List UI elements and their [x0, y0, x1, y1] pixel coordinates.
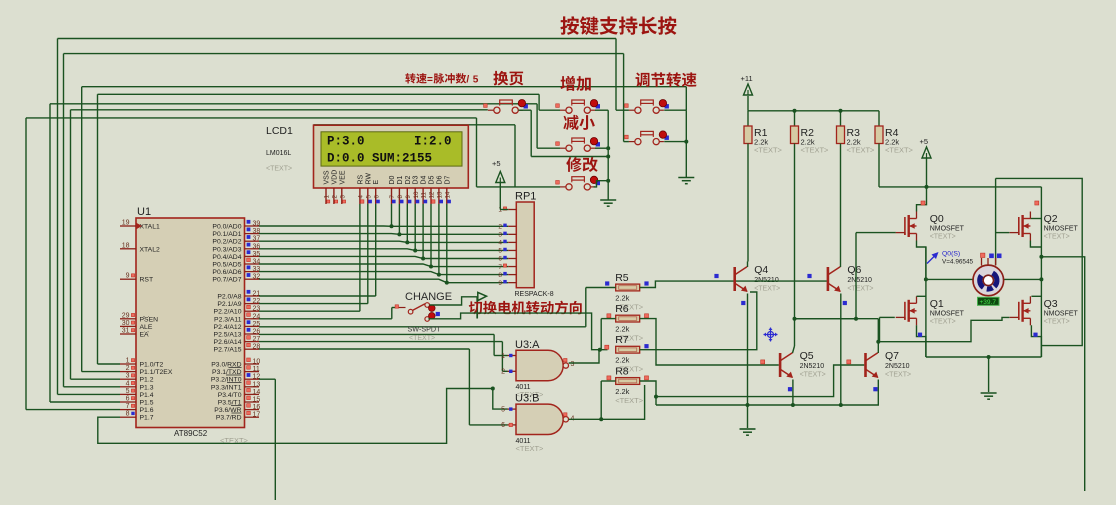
wire P1 bundle h y=103.8 [50, 103, 537, 105]
U1 pin 8 P1.7 [120, 416, 136, 418]
wire Q5 collector node to Q0 gate [795, 318, 857, 320]
svg-text:+5: +5 [920, 137, 929, 146]
wire motor top pin to Q2 gate and top loop [995, 178, 997, 265]
svg-text:D6: D6 [436, 175, 443, 184]
svg-text:31: 31 [122, 328, 130, 335]
svg-text:<TEXT>: <TEXT> [930, 234, 956, 241]
NAND gate U3:B 4011 [516, 404, 563, 434]
svg-text:P2.7/A15: P2.7/A15 [214, 347, 242, 354]
wire 调节 A out [664, 109, 686, 111]
svg-text:<TEXT>: <TEXT> [847, 146, 876, 155]
svg-text:19: 19 [122, 220, 130, 227]
svg-text:XTAL2: XTAL2 [140, 246, 160, 253]
svg-text:U3:B: U3:B [515, 393, 539, 405]
wire to button 调节转速 A [615, 39, 617, 111]
MOSFET Q0 NMOSFET [896, 212, 917, 241]
wire [64, 386, 121, 388]
svg-text:RP1: RP1 [515, 191, 536, 203]
RP1 pin 4 [508, 241, 516, 243]
push button 换页 [488, 100, 528, 114]
resistor R4 2.2k [875, 126, 883, 144]
wire ground stem [747, 405, 749, 428]
U1 pin 15 P3.5/T1 [245, 401, 260, 403]
transistor Q4 2N5210 [735, 267, 748, 292]
U1 pin 16 P3.6/WR [245, 409, 260, 411]
svg-text:P1.2: P1.2 [140, 377, 154, 384]
wire R4 down to +5 rail [878, 144, 880, 187]
wire 换页 out to column [519, 109, 532, 111]
wire [58, 393, 121, 395]
svg-text:7: 7 [498, 264, 502, 271]
U1 pin 7 P1.6 [120, 409, 136, 411]
svg-text:5: 5 [365, 195, 372, 199]
svg-text:P2.3/A11: P2.3/A11 [214, 316, 242, 323]
wire bridge ground rail [926, 356, 1042, 358]
wire P2.3 to switch [259, 318, 392, 320]
wire P1 bundle v x=50 [49, 104, 51, 402]
wire R6 right to Q5 base [640, 319, 779, 365]
U1 pin 1 P1.0/T2 [120, 363, 136, 365]
wire Q6 base from Q4 side [736, 280, 827, 282]
svg-text:P1.5: P1.5 [140, 400, 154, 407]
U1 pin 25 P2.4/A12 [245, 325, 260, 327]
U1 pin 6 P1.5 [120, 401, 136, 403]
wire P1 bundle h y=86.7 [82, 86, 687, 88]
wire Q2 source to right column [1030, 241, 1041, 248]
wire switch top contact [430, 297, 478, 305]
wire P1 bundle v x=81.7 [81, 87, 83, 372]
svg-text:P0.5/AD5: P0.5/AD5 [212, 262, 241, 269]
wire R1 to Q4 collector [747, 144, 749, 262]
svg-text:NMOSFET: NMOSFET [1044, 226, 1079, 233]
label 切换电机转动方向 [469, 301, 582, 315]
svg-text:CHANGE: CHANGE [405, 291, 452, 303]
RP1 pin 5 [508, 249, 516, 251]
motor rpm display +39.7 [978, 297, 1000, 306]
svg-text:P0.4/AD4: P0.4/AD4 [212, 254, 241, 261]
wire P1 bundle h y=94.3 [98, 93, 540, 95]
svg-text:<TEXT>: <TEXT> [754, 286, 780, 293]
wire P3.2 to bottom [259, 378, 275, 380]
motor pin squares [981, 253, 985, 257]
svg-text:P0.1/AD1: P0.1/AD1 [212, 231, 241, 238]
wire +11 rail [747, 96, 749, 111]
wire P0.3 to RP1 pin 5 [259, 249, 508, 251]
svg-text:<TEXT>: <TEXT> [754, 146, 783, 155]
svg-text:1: 1 [126, 358, 130, 365]
svg-text:3: 3 [339, 195, 346, 199]
svg-text:R6: R6 [615, 303, 629, 315]
wire Q7 emitter [877, 380, 879, 406]
svg-text:2: 2 [501, 369, 505, 376]
wire Q5 emitter [792, 380, 794, 406]
svg-text:3: 3 [126, 373, 130, 380]
svg-text:P2.2/A10: P2.2/A10 [214, 309, 242, 316]
svg-text:EA: EA [140, 332, 150, 339]
push button 调节转速 B [629, 131, 669, 145]
wire along LCD top to RP1 column [314, 124, 516, 126]
svg-text:15: 15 [253, 397, 261, 404]
wire P0.2 to RP1 pin 4 [259, 241, 508, 242]
svg-text:8: 8 [498, 272, 502, 279]
U1 pin 13 P3.3/INT1 [245, 386, 260, 388]
svg-text:P2.5/A13: P2.5/A13 [214, 332, 242, 339]
wire 修改 out [594, 181, 609, 187]
MOSFET Q1 NMOSFET [896, 296, 917, 325]
svg-text:2.2k: 2.2k [615, 294, 629, 303]
push button 修改 [560, 176, 600, 190]
transistor Q6 2N5210 [828, 267, 841, 292]
wire far right vertical [1041, 257, 1084, 491]
svg-text:12: 12 [429, 191, 436, 198]
U1 pin 28 P2.7/A15 [245, 348, 260, 350]
wire LCD E to P2.0 [375, 204, 377, 296]
svg-text:13: 13 [437, 191, 444, 198]
push button 减小 [560, 138, 600, 152]
ground below motor bridge [981, 393, 997, 399]
svg-text:P0.7/AD7: P0.7/AD7 [212, 277, 241, 284]
push button 增加 [560, 100, 600, 114]
U1 pin 3 P1.2 [120, 378, 136, 380]
wire to Q2 drain [1030, 218, 1041, 220]
LCD LCD1 LM016L [314, 125, 469, 188]
svg-text:R7: R7 [615, 334, 629, 346]
svg-text:R8: R8 [615, 366, 629, 378]
svg-text:P1.6: P1.6 [140, 407, 154, 414]
MOSFET Q2 NMOSFET [1010, 212, 1031, 241]
svg-text:P0.0/AD0: P0.0/AD0 [212, 224, 241, 231]
svg-text:2N5210: 2N5210 [800, 363, 825, 370]
resistor R6 2.2k [616, 315, 640, 322]
wire R3 to Q6 collector [840, 144, 842, 262]
wire to button 增加 [538, 94, 540, 110]
wire Q7 collector node across [877, 319, 879, 342]
svg-text:D:0.0 SUM:2155: D:0.0 SUM:2155 [327, 152, 432, 166]
wire LCD D7 column [446, 204, 448, 283]
svg-text:5: 5 [126, 388, 130, 395]
svg-text:=: = [427, 75, 433, 86]
svg-text:<TEXT>: <TEXT> [885, 146, 914, 155]
svg-text:RS: RS [357, 174, 364, 184]
switch CHANGE SW-SPDT [395, 303, 430, 322]
wire Q5 collector [793, 346, 795, 353]
svg-text:13: 13 [253, 381, 261, 388]
svg-text:2N5210: 2N5210 [847, 277, 872, 284]
svg-text:D4: D4 [421, 175, 428, 184]
wire Q4 emitter down to rail [747, 294, 749, 406]
svg-text:<TEXT>: <TEXT> [1044, 318, 1070, 325]
svg-text:6: 6 [126, 396, 130, 403]
wire P1 bundle h y=117.9 [26, 117, 477, 119]
U1 pin 27 P2.6/A14 [245, 341, 260, 343]
svg-text:14: 14 [253, 389, 261, 396]
svg-text:3: 3 [498, 232, 502, 239]
wire P1 bundle v x=97.5 [97, 94, 99, 364]
wire ground stem motor [988, 357, 990, 392]
wire LCD D0 column [391, 204, 393, 226]
wire P1 bundle h y=53.6 [64, 53, 624, 55]
wire P2.4 to R5 [259, 326, 586, 328]
wire LCD D4 column [422, 204, 424, 259]
svg-text:17: 17 [253, 412, 261, 419]
svg-text:XTAL1: XTAL1 [140, 224, 160, 231]
svg-text:P0.2/AD2: P0.2/AD2 [212, 239, 241, 246]
ground below 调节转速 buttons [678, 178, 694, 184]
wire R7 right to Q4 emitter node [640, 292, 757, 350]
wire to ground column right of 调节转速 [685, 87, 687, 111]
RP1 pin 6 [508, 258, 516, 260]
svg-text:Q6: Q6 [847, 264, 861, 276]
svg-text:8: 8 [126, 411, 130, 418]
wire U3:A output to R6/R7 node [569, 350, 599, 363]
U1 pin 29 PSEN [120, 318, 136, 320]
svg-text:<TEXT>: <TEXT> [801, 146, 830, 155]
U1 pin 5 P1.4 [120, 393, 136, 395]
svg-text:U3:A: U3:A [515, 339, 540, 351]
NAND gate U3:A 4011 [516, 350, 563, 380]
U1 pin 10 P3.0/RXD [245, 363, 260, 365]
U1 pin 12 P3.2/INT0 [245, 378, 260, 380]
wire P1 bundle v x=63.5 [63, 54, 65, 387]
U1 pin 26 P2.5/A13 [245, 333, 260, 335]
svg-text:2: 2 [332, 195, 339, 199]
svg-text:Q1: Q1 [930, 298, 944, 310]
wire P2.6 to U3:A pin2 [259, 341, 502, 343]
svg-text:9: 9 [126, 273, 130, 280]
wire Q7 collector to node [877, 342, 879, 353]
green direction arrow [477, 292, 486, 318]
svg-text:+39.7: +39.7 [980, 299, 997, 306]
svg-text:RST: RST [140, 277, 154, 284]
svg-text:1: 1 [324, 195, 331, 199]
power +5 near bridge [920, 137, 932, 158]
svg-text:10: 10 [413, 191, 420, 198]
svg-text:4: 4 [126, 380, 130, 387]
svg-text:+5: +5 [492, 159, 501, 168]
U1 pin 14 P3.4/T0 [245, 393, 260, 395]
wire P1 bundle h y=38.5 [58, 38, 617, 40]
wire Q1 source to ground rail [917, 325, 926, 357]
wire to button 减小 [536, 104, 538, 148]
wire P1 bundle v x=26 [25, 118, 27, 410]
svg-text:29: 29 [122, 312, 130, 319]
svg-text:<TEXT>: <TEXT> [885, 372, 911, 379]
svg-text:<TEXT>: <TEXT> [800, 372, 826, 379]
wire LCD RW to P2.1 [367, 204, 369, 304]
svg-text:+11: +11 [741, 74, 753, 83]
svg-text:5: 5 [473, 75, 479, 86]
svg-text:D3: D3 [413, 175, 420, 184]
wire R8 right to Q7 base [640, 381, 656, 405]
U1 pin 38 P0.1/AD1 [245, 233, 260, 235]
wire node to Q3 gate staircase [878, 317, 1009, 341]
title text 按键支持长按 [560, 16, 676, 35]
svg-text:7: 7 [389, 195, 396, 199]
U1 pin 19 XTAL1 [120, 225, 136, 227]
wire to button 调节转速 B [623, 54, 625, 142]
wire Q3 source to ground rail [1031, 325, 1041, 357]
svg-text:<TEXT>: <TEXT> [266, 166, 292, 173]
svg-text:P1.0/T2: P1.0/T2 [140, 362, 164, 369]
RP1 pin 2 [508, 225, 516, 227]
wire P2.7 to U3:B pin6 [259, 348, 469, 350]
svg-text:<TEXT>: <TEXT> [220, 436, 249, 445]
resistor R8 2.2k [616, 378, 640, 385]
wire LCD D6 column [438, 204, 440, 275]
U1 pin 33 P0.6/AD6 [245, 271, 260, 273]
U1 pin 31 EA [120, 333, 136, 335]
resistor R2 2.2k [791, 126, 799, 144]
svg-text:8: 8 [397, 195, 404, 199]
wire P1 bundle v x=70.5 [70, 110, 72, 379]
svg-text:Q2: Q2 [1044, 213, 1058, 225]
svg-text:LM016L: LM016L [266, 150, 291, 157]
svg-text:RESPACK-8: RESPACK-8 [515, 291, 554, 298]
power +11 [741, 74, 753, 95]
U1 pin 35 P0.4/AD4 [245, 255, 260, 257]
svg-text:D1: D1 [397, 175, 404, 184]
wire 减小 out [595, 147, 608, 149]
svg-text:NMOSFET: NMOSFET [1044, 310, 1079, 317]
U1 pin 24 P2.3/A11 [245, 318, 260, 320]
svg-text:11: 11 [421, 192, 428, 199]
svg-text:VDD: VDD [331, 170, 338, 185]
svg-text:4: 4 [498, 240, 502, 247]
U1 pin 39 P0.0/AD0 [245, 225, 260, 227]
wire +5 rail to gates drains [879, 186, 1041, 188]
svg-text:U1: U1 [137, 206, 151, 218]
resistor R5 2.2k [616, 284, 640, 291]
wire R2 to Q5 collector [794, 144, 796, 347]
svg-text:3: 3 [571, 361, 575, 368]
svg-text:2.2k: 2.2k [615, 356, 629, 365]
svg-text:Q7: Q7 [885, 350, 899, 362]
svg-text:<TEXT>: <TEXT> [847, 286, 873, 293]
wire LCD D3 column [414, 204, 416, 250]
MOSFET Q3 NMOSFET [1010, 296, 1031, 325]
wire LCD D1 column [398, 204, 400, 234]
svg-text:P2.6/A14: P2.6/A14 [214, 339, 242, 346]
U1 pin 36 P0.3/AD3 [245, 248, 260, 250]
U1 pin 17 P3.7/RD [245, 416, 260, 418]
wire LCD D2 column [406, 204, 408, 242]
svg-text:RW: RW [365, 173, 372, 185]
wire [26, 409, 120, 411]
U1 pin 37 P0.2/AD2 [245, 240, 260, 242]
svg-text:E: E [373, 180, 380, 185]
wire P2.5 to U3:A pin1 [259, 333, 494, 335]
svg-text:VSS: VSS [324, 170, 331, 184]
svg-text:2.2k: 2.2k [615, 387, 629, 396]
resistor R1 2.2k [744, 126, 752, 144]
svg-text:V=4.96545: V=4.96545 [942, 259, 974, 266]
svg-text:6: 6 [501, 422, 505, 429]
svg-text:2N5210: 2N5210 [885, 363, 910, 370]
wire [50, 401, 120, 403]
svg-text:Q0(S): Q0(S) [942, 251, 960, 258]
svg-text:6: 6 [373, 195, 380, 199]
svg-text:14: 14 [444, 191, 451, 198]
svg-text:D5: D5 [429, 175, 436, 184]
svg-text:30: 30 [122, 320, 130, 327]
transistor Q5 2N5210 [780, 353, 793, 378]
svg-text:P0.3/AD3: P0.3/AD3 [212, 246, 241, 253]
RP1 pin 7 [508, 266, 516, 268]
svg-text:11: 11 [253, 366, 260, 373]
svg-text:2: 2 [498, 224, 502, 231]
svg-text:D0: D0 [389, 175, 396, 184]
svg-text:VEE: VEE [339, 170, 346, 184]
wire P0.5 to RP1 pin 7 [259, 264, 508, 267]
U1 pin 2 P1.1/T2EX [120, 371, 136, 373]
U1 pin 11 P3.1/TXD [245, 371, 260, 373]
svg-text:Q5: Q5 [800, 350, 814, 362]
svg-text:5: 5 [498, 248, 502, 255]
svg-text:Q4: Q4 [754, 264, 768, 276]
svg-text:P2.4/A12: P2.4/A12 [214, 324, 242, 331]
svg-text:P1.7: P1.7 [140, 415, 154, 422]
wire Q0 source to motor left [917, 241, 926, 280]
svg-text:AT89C52: AT89C52 [174, 429, 208, 438]
wire switch bottom contact to R6/R7 node [428, 313, 607, 350]
U1 pin 9 RST [120, 278, 136, 280]
svg-text:P0.6/AD6: P0.6/AD6 [212, 269, 241, 276]
RP1 pin 3 [508, 233, 516, 235]
svg-text:9: 9 [405, 195, 412, 199]
wire Q6 emitter down to rail [840, 294, 842, 406]
wire to button 修改 [476, 118, 478, 187]
svg-text:D7: D7 [444, 175, 451, 184]
svg-text:9: 9 [498, 280, 502, 287]
wire R5 right to Q4 base [640, 281, 734, 287]
wire Q1 drain [917, 295, 926, 297]
U1 pin 32 P0.7/AD7 [245, 278, 260, 280]
svg-text:7: 7 [126, 403, 130, 410]
wire [82, 371, 120, 373]
U1 pin 34 P0.5/AD5 [245, 263, 260, 265]
svg-text:16: 16 [253, 404, 261, 411]
wire P0.6 to RP1 pin 8 [259, 272, 508, 275]
origin marker [764, 328, 778, 342]
wire motor left column [925, 247, 927, 357]
RP1 pin 8 [508, 274, 516, 276]
U1 pin 18 XTAL2 [120, 248, 136, 250]
svg-text:P2.0/A8: P2.0/A8 [217, 294, 241, 301]
wire P1 bundle h y=109.8 [71, 109, 488, 111]
IC U1 AT89C52 [136, 218, 245, 428]
wire to Q0 drain [917, 187, 927, 212]
svg-text:5: 5 [501, 406, 505, 413]
svg-text:P3.7/RD: P3.7/RD [216, 415, 242, 422]
svg-text:Q3: Q3 [1044, 298, 1058, 310]
svg-text:ALE: ALE [140, 324, 153, 331]
svg-text:D2: D2 [405, 175, 412, 184]
svg-text:P1.4: P1.4 [140, 392, 154, 399]
wire Q6 collector [840, 262, 842, 268]
power +5 for RP1 [492, 159, 505, 183]
wire LCD RS to P2.2 [359, 204, 361, 311]
wire R5 left to P2.4 [586, 287, 616, 289]
svg-text:SW-SPDT: SW-SPDT [408, 325, 442, 334]
ground below rail [740, 429, 756, 435]
svg-text:P1.3: P1.3 [140, 384, 154, 391]
svg-text:NMOSFET: NMOSFET [930, 226, 965, 233]
svg-text:<TEXT>: <TEXT> [409, 335, 435, 342]
svg-text:LCD1: LCD1 [266, 125, 293, 137]
svg-text:P2.1/A9: P2.1/A9 [217, 301, 241, 308]
wire 调节 B out [664, 141, 686, 143]
voltage probe Q0(S) [927, 251, 974, 266]
